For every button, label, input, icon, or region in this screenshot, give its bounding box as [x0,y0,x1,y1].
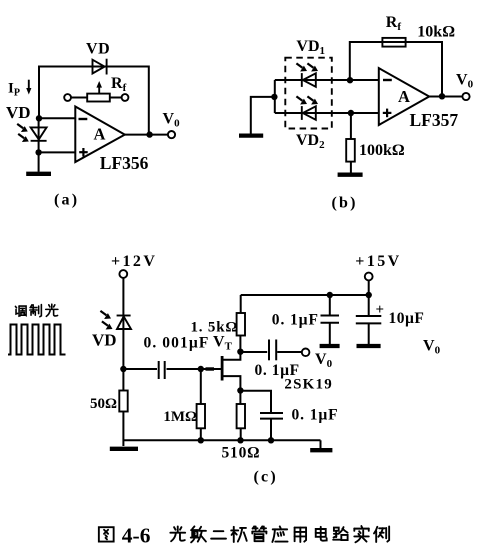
resistor 1.5k [237,295,245,352]
resistor Rf 10k (b) [382,38,405,47]
svg-text:A: A [398,87,410,106]
node 510 rail [237,437,243,443]
svg-text:Rf: Rf [111,75,127,94]
svg-text:4-6: 4-6 [122,524,151,548]
light arrows VD (c) [100,311,112,330]
svg-text:2SK19: 2SK19 [284,377,333,393]
svg-text:IP: IP [8,81,20,99]
resistor 100k [346,113,355,173]
light arrows VD2 [296,96,318,104]
svg-text:+12V: +12V [111,253,157,270]
resistor Rf trimmer (a) [64,81,128,102]
ground (100k) [338,173,363,177]
terminal V0 (a) [168,131,175,138]
svg-text:VT: VT [213,334,233,353]
waveform modulated light [8,325,66,355]
photodiode VD (c) [117,316,131,330]
op-amp U2 LF357 [379,68,429,125]
svg-text:1. 5kΩ: 1. 5kΩ [191,320,239,336]
capacitor 0.1uF coupling [269,340,302,361]
wire bottom rail (c) [123,439,320,441]
capacitor 0.001uF [159,361,201,379]
terminal +15V [365,273,373,281]
wire output (b) [429,96,462,98]
ground (rail cap1) [320,344,340,348]
node rail cap2 [366,292,372,298]
node photodiode bottom [120,366,126,372]
node inverting (b) [347,77,353,83]
transistor VT 2SK19 [222,352,240,391]
wire to ground (b) [251,97,275,134]
svg-text:VD: VD [6,103,31,122]
ground (10uF) [357,344,381,348]
node gate [198,366,204,372]
resistor 510 [237,391,245,441]
ground (c left) [110,447,138,451]
capacitor 0.1uF bypass [260,413,283,440]
wire left bus (b) [274,80,276,113]
node 1M rail [198,437,204,443]
capacitor 0.1uF rail [321,295,340,344]
svg-text:+: + [376,302,385,318]
wire +12V down [122,278,124,369]
svg-text:10µF: 10µF [389,310,425,327]
svg-text:10kΩ: 10kΩ [417,23,455,40]
svg-text:VD: VD [92,331,117,350]
svg-text:0. 1µF: 0. 1µF [292,407,339,424]
svg-text:VD2: VD2 [296,132,325,151]
node bypass rail [268,437,274,443]
svg-text:510Ω: 510Ω [222,445,261,462]
terminal +12V [119,270,127,278]
svg-text:50Ω: 50Ω [90,396,117,412]
dashed box photodiode pair [285,58,332,129]
wire VD2 row [275,112,379,114]
light arrows (a) [17,124,29,142]
wire source to bypass cap [240,391,271,413]
node output (b) [439,93,445,99]
resistor 1M [197,369,205,440]
wire inverting input (a) [39,117,75,119]
svg-text:Rf: Rf [386,14,402,33]
label Ip with arrow [8,80,31,99]
svg-text:(a): (a) [54,192,79,209]
svg-text:V0: V0 [163,111,181,130]
light arrows VD1 [296,63,318,71]
node + input (a) [35,149,41,155]
svg-text:(c): (c) [254,469,278,486]
wire drain to coupling cap [240,351,267,353]
ground (c right) [310,440,332,450]
wire to cap 0.001 [123,368,157,370]
terminal V0 (b) [462,93,469,100]
wire feedback loop (a) [39,67,149,135]
wire +15V down [368,280,370,295]
photodiode VD2 [302,106,316,120]
node left bus (b) [271,94,277,100]
svg-text:V0: V0 [456,72,474,91]
terminal V0 (c) [302,349,310,357]
svg-text:VD1: VD1 [296,38,325,57]
svg-text:V0: V0 [315,351,333,370]
photodiode VD (a) [31,118,47,152]
wire output (a) [125,134,168,136]
svg-text:VD: VD [86,41,110,58]
node rail cap1 [327,292,333,298]
wire gate [201,368,221,370]
label modulated light (hanzi) [15,304,57,316]
svg-text:LF357: LF357 [410,110,459,130]
node noninverting (b) [348,110,354,116]
svg-text:0. 1µF: 0. 1µF [272,312,319,329]
caption figure 4-6 [99,524,389,548]
resistor 50 [119,369,127,446]
photodiode VD1 [302,73,316,87]
ground (b left) [239,133,263,137]
svg-text:LF356: LF356 [100,153,149,173]
svg-text:A: A [94,125,106,144]
svg-text:1MΩ: 1MΩ [163,409,197,425]
node output (a) [146,131,152,137]
svg-text:0. 001µF: 0. 001µF [144,335,210,352]
svg-text:(b): (b) [332,194,358,211]
node inverting input (a) [36,115,42,121]
capacitor 10uF polarized [356,295,384,344]
svg-text:+15V: +15V [355,253,401,270]
diode VD feedback (a) [93,59,107,75]
wire VD1 row [275,79,379,81]
svg-text:V0: V0 [423,338,441,357]
node drain [237,349,243,355]
svg-text:100kΩ: 100kΩ [359,142,405,159]
op-amp U1 LF356 [75,107,125,163]
wire feedback loop (b) [350,42,442,96]
node source [237,387,243,393]
wire top rail (c) [241,294,369,296]
wire + input (a) [39,151,76,153]
ground (a) [26,152,51,173]
